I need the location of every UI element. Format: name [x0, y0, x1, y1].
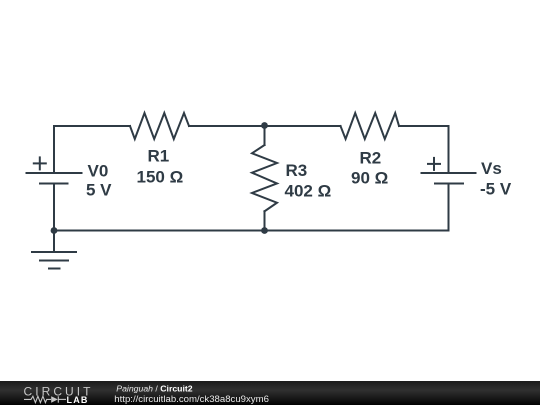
node A junction dot [261, 122, 268, 129]
label R1 [148, 147, 170, 166]
svg-text:5 V: 5 V [86, 181, 112, 200]
resistor R2 [341, 113, 400, 139]
label R3 [286, 161, 308, 180]
svg-text:R3: R3 [286, 161, 308, 180]
voltage source V0 positive plate [27, 172, 82, 174]
value 5 V [86, 181, 112, 200]
wire R3 to node B [264, 211, 266, 230]
svg-text:Painguah / Circuit2: Painguah / Circuit2 [116, 384, 192, 394]
svg-text:-5 V: -5 V [480, 180, 512, 199]
voltage source Vs negative plate [435, 183, 463, 185]
wire V0 bottom to ground branch [53, 184, 55, 253]
wire top-right: R2 to Vs top [399, 126, 449, 173]
svg-text:LAB: LAB [67, 395, 89, 405]
bottom wire left: node C to node B [54, 230, 265, 232]
Vs plus sign [428, 158, 440, 170]
wire top-left: V0 top to R1 [54, 126, 130, 173]
svg-text:90 Ω: 90 Ω [351, 169, 388, 188]
value 402 ohm [285, 182, 332, 201]
CircuitLab logo [0, 381, 540, 405]
label V0 [88, 162, 109, 181]
footer bar [0, 381, 540, 405]
ground [32, 252, 76, 269]
svg-text:V0: V0 [88, 162, 109, 181]
value 90 ohm [351, 169, 388, 188]
V0 plus sign [34, 157, 46, 169]
wire node A to R3 [264, 126, 266, 145]
svg-text:http://circuitlab.com/ck38a8cu: http://circuitlab.com/ck38a8cu9xym6 [114, 394, 269, 405]
resistor R1 [130, 113, 189, 139]
wire R1 to node A [189, 125, 265, 127]
node C junction dot [51, 227, 58, 234]
voltage source V0 negative plate [40, 183, 68, 185]
resistor R3 [252, 145, 277, 211]
voltage source Vs positive plate [422, 172, 476, 174]
svg-text:R1: R1 [148, 147, 170, 166]
svg-text:150 Ω: 150 Ω [137, 168, 184, 187]
value -5 V [480, 180, 512, 199]
node B junction dot [261, 227, 268, 234]
wire Vs bottom to bottom rail [448, 184, 450, 231]
logo resistor squiggle and diode [24, 396, 66, 403]
wire node A to R2 [265, 125, 341, 127]
svg-text:402 Ω: 402 Ω [285, 182, 332, 201]
svg-text:Vs: Vs [481, 159, 502, 178]
bottom wire right: node B to Vs [265, 230, 449, 232]
svg-text:R2: R2 [360, 149, 382, 168]
label Vs [481, 159, 502, 178]
label R2 [360, 149, 382, 168]
value 150 ohm [137, 168, 184, 187]
